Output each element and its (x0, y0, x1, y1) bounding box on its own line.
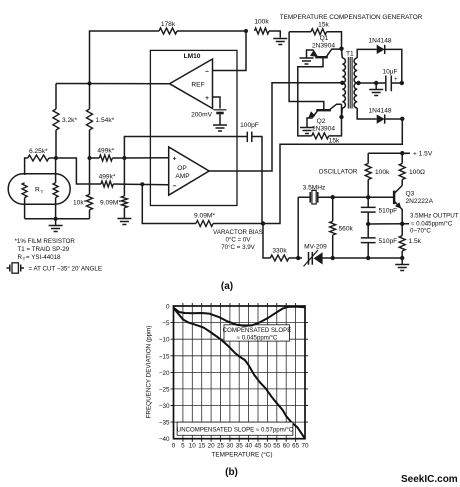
svg-text:VARACTOR BIAS: VARACTOR BIAS (213, 229, 263, 236)
svg-text:OP: OP (177, 165, 187, 172)
junction Q1 collector / 15k / primary (339, 47, 343, 51)
axis ticks right (305, 323, 308, 423)
transformer core (348, 57, 352, 109)
y axis labels (159, 304, 170, 444)
svg-text:+ 1.5V: + 1.5V (413, 151, 433, 158)
svg-text:5: 5 (181, 443, 185, 450)
svg-text:100k: 100k (254, 19, 269, 26)
ground for 100k (273, 39, 287, 45)
capacitor 510pF lower (367, 224, 369, 258)
svg-text:1N4148: 1N4148 (368, 38, 391, 45)
wire riser to 100pF row y136.5 (124, 137, 247, 159)
ground under 200mV (213, 125, 227, 131)
svg-text:40: 40 (245, 443, 253, 450)
wire row1-left y158 with elbow down to row2 (25, 158, 101, 184)
svg-text:100pF: 100pF (240, 122, 259, 129)
svg-text:178k: 178k (161, 21, 176, 28)
capacitor 10uF (386, 76, 392, 92)
svg-text:(b): (b) (225, 467, 238, 478)
Q1 emitter arrow (310, 51, 317, 57)
svg-text:2N2222A: 2N2222A (406, 198, 434, 205)
svg-text:10: 10 (189, 443, 197, 450)
svg-text:+: + (173, 156, 177, 163)
svg-text:≈ 0.045ppm/°C: ≈ 0.045ppm/°C (411, 221, 453, 228)
svg-text:−30: −30 (159, 403, 170, 410)
resistor 1.5k (401, 224, 403, 264)
op amp output wire to transformer center tap riser (209, 83, 342, 171)
svg-text:0: 0 (172, 443, 176, 450)
resistor R178k (159, 28, 177, 34)
transformer T1 primary winding (341, 49, 344, 58)
op-amp OP AMP (points right) (169, 147, 209, 195)
svg-text:70: 70 (301, 443, 309, 450)
resistor 9.09M* vertical to ground (123, 158, 125, 218)
capacitor 510pF upper (367, 197, 369, 224)
grid horizontal lines (174, 323, 306, 423)
node A junction (88, 82, 92, 86)
svg-text:−25: −25 (159, 386, 170, 393)
op-amp REF (points left) (170, 59, 213, 109)
resistor 560k (332, 197, 334, 258)
svg-text:0: 0 (166, 304, 170, 311)
svg-text:AMP: AMP (175, 173, 190, 180)
secondary center tap to ground and 10uF (357, 82, 385, 84)
diode 1N4148 top (377, 45, 385, 54)
junction at 178k/100k (244, 29, 248, 33)
svg-text:3.5MHz OUTPUT: 3.5MHz OUTPUT (410, 213, 459, 220)
svg-text:560k: 560k (339, 226, 354, 233)
svg-text:= YSI-44018: = YSI-44018 (26, 254, 61, 261)
svg-text:1.54k*: 1.54k* (96, 117, 115, 124)
svg-text:60: 60 (283, 443, 291, 450)
svg-text:499k*: 499k* (99, 174, 116, 181)
svg-text:9.09M*: 9.09M* (194, 213, 215, 220)
svg-text:100k: 100k (375, 169, 390, 176)
thermistor element right (53, 183, 58, 198)
svg-text:+: + (394, 77, 398, 83)
wire row1-right y158 (90, 157, 169, 159)
svg-text:−10: −10 (159, 337, 170, 344)
uncompensated slope label box (177, 422, 293, 435)
wire crystal left down to rail (297, 197, 299, 258)
resistor 330k (270, 255, 289, 261)
svg-text:T: T (41, 190, 44, 196)
svg-text:+: + (205, 95, 209, 102)
svg-text:COMPENSATED SLOPE: COMPENSATED SLOPE (223, 327, 292, 334)
svg-text:30: 30 (226, 443, 234, 450)
grid vertical lines (183, 306, 296, 439)
svg-text:100Ω: 100Ω (409, 169, 425, 176)
svg-text:−40: −40 (159, 436, 170, 443)
ground under 9.09M vertical (117, 219, 131, 225)
svg-text:0~70°C: 0~70°C (410, 228, 431, 235)
svg-text:−5: −5 (162, 320, 170, 327)
bottom wire under thermistor (25, 218, 90, 220)
axis ticks left (171, 323, 174, 423)
resistor 100k top (255, 28, 270, 34)
svg-text:6.25k*: 6.25k* (29, 148, 48, 155)
svg-text:10µF: 10µF (382, 69, 397, 76)
svg-text:45: 45 (254, 443, 262, 450)
thermistor RT oval (8, 174, 70, 204)
svg-text:1.5k: 1.5k (409, 238, 422, 245)
svg-text:330k: 330k (272, 248, 287, 255)
jog to rectifier feed vertical (263, 119, 402, 224)
svg-text:15k: 15k (329, 138, 340, 145)
svg-text:3.2k*: 3.2k* (62, 117, 77, 124)
svg-text:TEMPERATURE (°C): TEMPERATURE (°C) (211, 451, 272, 459)
Q2 emitter arrow (308, 111, 315, 118)
svg-text:−20: −20 (159, 370, 170, 377)
ground Q1 emitter (300, 58, 314, 64)
svg-text:10k*: 10k* (73, 200, 87, 207)
x axis labels (172, 443, 309, 450)
resistor 499k* lower (101, 181, 113, 187)
junction 3.2k/6.25k/thermistor (54, 156, 58, 160)
feedback wire from minus node down to 9.09M row (142, 184, 263, 223)
bottom rail of oscillator (289, 257, 402, 259)
200mV source (214, 109, 227, 111)
LM10 package box (150, 50, 237, 205)
svg-text:T1: T1 (346, 51, 354, 58)
svg-text:35: 35 (236, 443, 244, 450)
svg-text:REF: REF (191, 82, 204, 89)
plot border (174, 306, 306, 439)
uncompensated curve (174, 308, 306, 439)
svg-text:TEMPERATURE COMPENSATION GENER: TEMPERATURE COMPENSATION GENERATOR (280, 14, 423, 21)
diode 1N4148 bottom (377, 115, 385, 124)
compensated slope label box (224, 325, 290, 341)
svg-text:Q1: Q1 (320, 35, 329, 42)
resistor 15k bottom (312, 133, 329, 139)
compensated curve (174, 307, 306, 326)
wire REF inverting input to top junction (213, 31, 247, 71)
svg-text:65: 65 (292, 443, 300, 450)
svg-text:20: 20 (208, 443, 216, 450)
svg-text:Q2: Q2 (317, 118, 326, 125)
resistor 499k* upper (99, 155, 112, 161)
svg-text:*1% FILM RESISTOR: *1% FILM RESISTOR (15, 238, 76, 245)
svg-text:1N4148: 1N4148 (368, 108, 391, 115)
resistor 100k oscillator (367, 153, 369, 197)
svg-text:MV-209: MV-209 (304, 244, 327, 251)
svg-text:50: 50 (264, 443, 272, 450)
svg-text:FREQUENCY DEVIATION (ppm): FREQUENCY DEVIATION (ppm) (146, 326, 153, 419)
wire REF + input to 200mV source (213, 97, 221, 109)
svg-text:≈ 0.045ppm/°C: ≈ 0.045ppm/°C (237, 334, 278, 341)
resistor 15k top (289, 32, 341, 49)
svg-text:LM10: LM10 (184, 53, 201, 60)
svg-text:15k: 15k (318, 22, 329, 29)
wire 200mV to ground (219, 114, 221, 124)
ground under 1.5k (395, 265, 409, 271)
svg-text:15: 15 (198, 443, 206, 450)
left rail to Q2 base (289, 32, 324, 110)
svg-text:2N3904: 2N3904 (312, 126, 335, 133)
svg-text:−15: −15 (159, 353, 170, 360)
svg-text:−: − (173, 183, 177, 190)
transistor Q3 2N2222A (393, 191, 395, 205)
resistor 3.2k* (55, 84, 57, 159)
axis ticks bottom (183, 439, 296, 442)
ground Q2 emitter (300, 128, 314, 134)
svg-text:499k*: 499k* (97, 148, 114, 155)
junction feedback riser (122, 156, 126, 160)
resistor 6.25k* (28, 155, 49, 161)
+1.5V supply rail (368, 152, 410, 154)
svg-text:9.09M*: 9.09M* (100, 200, 121, 207)
resistor 1.54k* (89, 84, 91, 159)
transformer T1 secondary winding (354, 58, 357, 108)
axis ticks top (183, 303, 296, 306)
svg-text:R: R (35, 187, 40, 194)
svg-text:SeekIC.com: SeekIC.com (401, 474, 458, 485)
resistor 9.09M* horizontal (196, 221, 213, 227)
bias line down to oscillator rail (263, 224, 270, 259)
resistor 10k* vertical (89, 158, 91, 219)
wire row y83.5 to REF output (56, 83, 170, 85)
svg-text:(a): (a) (221, 281, 233, 292)
Q3 emitter arrow (395, 202, 401, 208)
wire crystal row to Q3 base (333, 196, 394, 198)
svg-text:OSCILLATOR: OSCILLATOR (319, 169, 358, 176)
svg-text:0°C = 0V: 0°C = 0V (225, 237, 251, 244)
svg-text:70°C = 3.9V: 70°C = 3.9V (221, 244, 255, 251)
wire top row y31 from node A to 178k to junction (90, 31, 281, 84)
crystal footnote symbol (7, 267, 25, 269)
svg-text:T1 = TRAID SP-29: T1 = TRAID SP-29 (18, 246, 70, 253)
thermistor element left (22, 183, 27, 198)
svg-text:−: − (205, 69, 209, 76)
svg-text:510pF: 510pF (379, 238, 398, 245)
wire row2 y184 to op amp minus (113, 183, 168, 186)
capacitor 100pF (247, 132, 252, 143)
varactor bias node (261, 221, 265, 225)
svg-text:200mV: 200mV (191, 112, 212, 119)
svg-text:25: 25 (217, 443, 225, 450)
emitter row (368, 223, 409, 225)
svg-text:55: 55 (273, 443, 281, 450)
svg-text:−35: −35 (159, 420, 170, 427)
svg-text:UNCOMPENSATED SLOPE ≈ 0.57ppm/: UNCOMPENSATED SLOPE ≈ 0.57ppm/°C (177, 426, 294, 433)
svg-text:510pF: 510pF (379, 208, 398, 215)
ground under thermistor (55, 219, 57, 225)
resistor 100 ohm (401, 153, 403, 185)
svg-text:Q3: Q3 (406, 191, 415, 198)
svg-text:= AT CUT ~35° 20′ ANGLE: = AT CUT ~35° 20′ ANGLE (29, 266, 102, 273)
